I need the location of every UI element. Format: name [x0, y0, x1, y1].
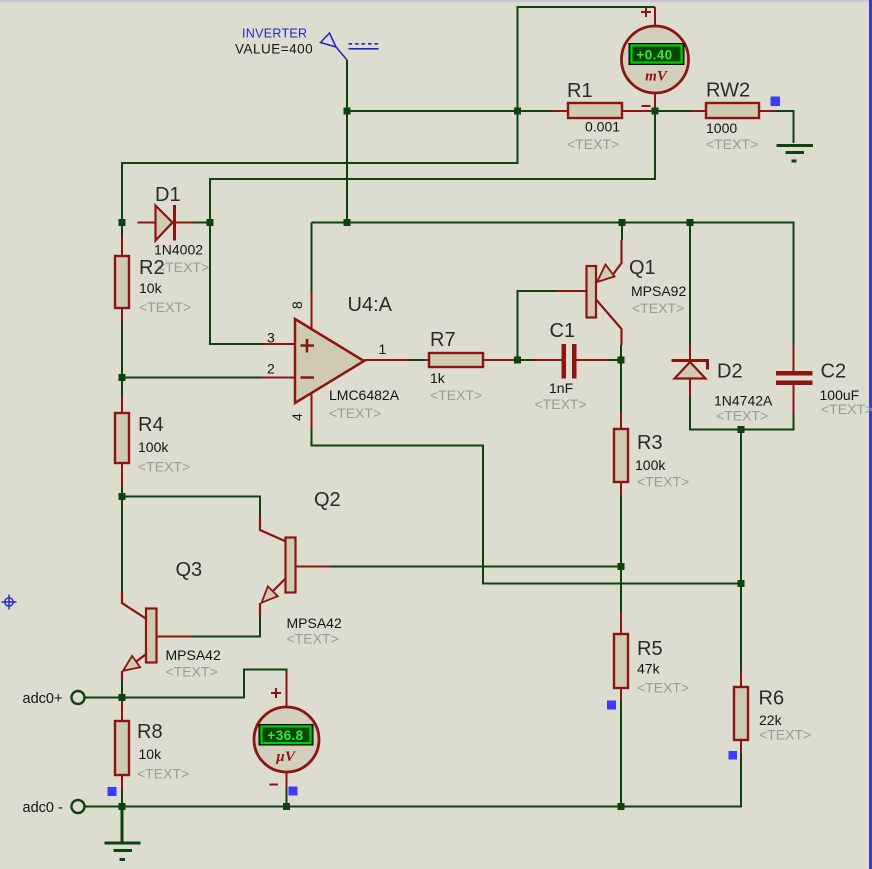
meter VM1 pin leads [654, 7, 656, 111]
marker square [289, 787, 298, 796]
svg-text:10k: 10k [139, 746, 163, 762]
wire C2 bottom node down [740, 430, 742, 584]
svg-text:1: 1 [379, 341, 387, 357]
svg-text:MPSA42: MPSA42 [166, 647, 221, 663]
svg-text:<TEXT>: <TEXT> [157, 259, 209, 275]
svg-text:<TEXT>: <TEXT> [139, 299, 191, 315]
junction node (655,111) [652, 108, 659, 115]
junction node (122,222.5) [119, 219, 126, 226]
junction node (286.5,806.5) [283, 803, 290, 810]
svg-text:R3: R3 [637, 432, 663, 454]
svg-text:4: 4 [289, 413, 305, 421]
D2 pin leads [689, 344, 691, 397]
svg-text:<TEXT>: <TEXT> [166, 664, 218, 680]
R1 pin leads [552, 110, 655, 112]
wire node to RW2 [655, 110, 692, 112]
junction node (122,806.5) [119, 803, 126, 810]
junction node (347,222.5) [344, 219, 351, 226]
transistor Q3 [146, 609, 157, 663]
resistor R8 body [115, 721, 129, 775]
svg-text:<TEXT>: <TEXT> [430, 387, 482, 403]
resistor R1 body [568, 103, 622, 118]
svg-text:100k: 100k [138, 439, 169, 455]
C1 pin leads [532, 359, 609, 361]
wire inverter vertical [346, 60, 348, 223]
capacitor C2 plates [776, 371, 813, 376]
svg-text:C1: C1 [550, 320, 576, 342]
svg-text:<TEXT>: <TEXT> [535, 396, 587, 412]
voltmeter VM1 (mV) [622, 26, 689, 93]
svg-text:1000: 1000 [706, 120, 737, 136]
marker square [108, 787, 117, 796]
svg-text:1N4742A: 1N4742A [714, 393, 773, 409]
Q3 base lead [157, 636, 193, 638]
wire top rail to meter + and left drop to D1 [122, 7, 655, 223]
wire Q2 emitter to Q3 base [192, 616, 260, 637]
svg-text:<TEXT>: <TEXT> [287, 631, 339, 647]
svg-text:Q1: Q1 [629, 257, 656, 279]
svg-text:<TEXT>: <TEXT> [637, 680, 689, 696]
svg-text:+36.8: +36.8 [267, 728, 303, 743]
svg-text:mV: mV [645, 69, 669, 85]
wire R2 top stub [121, 223, 123, 237]
R7 pin leads [424, 359, 518, 361]
junction node (347,111) [344, 108, 351, 115]
svg-text:INVERTER: INVERTER [242, 27, 307, 41]
wire C1 node to R3 [620, 360, 622, 412]
Q1 base lead [557, 290, 587, 292]
svg-text:U4:A: U4:A [348, 294, 393, 316]
svg-text:1k: 1k [430, 370, 446, 386]
svg-text:8: 8 [289, 301, 305, 309]
ground (top right) [777, 146, 814, 162]
op-amp pin4 lead [311, 394, 313, 430]
svg-text:Q2: Q2 [314, 489, 341, 511]
svg-text:100k: 100k [635, 457, 666, 473]
svg-text:<TEXT>: <TEXT> [329, 405, 381, 421]
svg-text:MPSA42: MPSA42 [287, 615, 342, 631]
junction node (741,583.5) [738, 580, 745, 587]
capacitor C1 plates [562, 344, 567, 379]
op-amp pin1 lead [364, 359, 410, 361]
svg-text:VALUE=400: VALUE=400 [235, 42, 313, 57]
svg-text:<TEXT>: <TEXT> [567, 136, 619, 152]
wire R3 to R5 node [620, 483, 622, 613]
svg-text:adc0 -: adc0 - [23, 800, 63, 816]
wire D2 top drop [689, 223, 691, 345]
wire Q3 emitter down [121, 680, 123, 698]
wire R8 bottom stub [121, 790, 123, 807]
zener diode D2 [675, 362, 706, 379]
svg-text:<TEXT>: <TEXT> [821, 401, 872, 417]
resistor R6 body [734, 687, 748, 740]
marker square [607, 701, 616, 710]
Q2 base lead [296, 566, 331, 568]
svg-text:2: 2 [267, 361, 275, 377]
svg-text:<TEXT>: <TEXT> [138, 459, 190, 475]
marker square [771, 97, 781, 107]
svg-text:<TEXT>: <TEXT> [759, 727, 811, 743]
junction node (210,222.5) [207, 219, 214, 226]
resistor R2 body [115, 256, 129, 308]
svg-text:R8: R8 [137, 721, 163, 743]
terminal adc0+ [72, 691, 85, 704]
op-amp U4:A body [295, 319, 364, 403]
svg-text:0.001: 0.001 [585, 119, 620, 135]
wire uV meter - stub [286, 790, 288, 807]
junction node (621,360) [618, 357, 625, 364]
wire +V rail y222 [312, 223, 794, 344]
resistor R4 body [115, 413, 129, 463]
wire node to R6 [740, 584, 742, 671]
junction node (622,222.5) [619, 219, 626, 226]
wire D2/C2 bottom link [690, 397, 794, 430]
voltmeter VM2 (uV) [254, 707, 319, 772]
svg-text:adc0+: adc0+ [23, 691, 63, 707]
R8 pin leads [121, 698, 123, 790]
transistor Q2 [286, 538, 296, 593]
junction node (122,496.5) [119, 493, 126, 500]
wire Q2 base to R3/R5 node [330, 566, 621, 568]
wire adc0+ rail and uV meter + route [85, 670, 287, 698]
svg-text:C2: C2 [821, 361, 847, 383]
op-amp pin8 lead [311, 292, 313, 329]
wire R1 row left [347, 110, 552, 112]
junction node (621,806.5) [618, 803, 625, 810]
wire Q2 collector route [122, 497, 260, 517]
wire C1 left stub [518, 359, 533, 361]
svg-text:<TEXT>: <TEXT> [716, 408, 768, 424]
diode D1 [156, 206, 173, 241]
wire bottom rail adc0- to R6 [85, 754, 742, 807]
marker square [729, 751, 738, 760]
svg-text:1nF: 1nF [549, 380, 573, 396]
junction node (517.5,360) [514, 357, 521, 364]
junction node (690,222.5) [687, 219, 694, 226]
svg-text:R4: R4 [138, 414, 164, 436]
svg-text:R6: R6 [759, 688, 785, 710]
junction node (621,566.5) [618, 563, 625, 570]
wire R7/C1 node riser to Q1 base [518, 291, 558, 360]
svg-text:3: 3 [267, 330, 275, 346]
R5 pin leads [620, 612, 622, 700]
junction node (122,377.5) [119, 374, 126, 381]
svg-text:MPSA92: MPSA92 [631, 283, 686, 299]
svg-text:<TEXT>: <TEXT> [632, 300, 684, 316]
junction node (741,429.5) [738, 426, 745, 433]
wire R5 bottom [620, 700, 622, 807]
wire Q1 emitter stub [621, 223, 623, 241]
svg-text:Q3: Q3 [176, 559, 203, 581]
D1 pin leads [138, 222, 194, 224]
svg-text:R7: R7 [430, 329, 456, 351]
C2 pin leads [793, 344, 795, 415]
meter VM2 pin leads [286, 673, 288, 790]
svg-text:<TEXT>: <TEXT> [706, 136, 758, 152]
svg-text:47k: 47k [637, 661, 661, 677]
RW2 pin leads [692, 110, 776, 112]
resistor RW2 body [706, 103, 759, 118]
svg-text:<TEXT>: <TEXT> [637, 474, 689, 490]
svg-text:10k: 10k [139, 280, 163, 296]
resistor R7 body [429, 353, 483, 367]
wire left column R2-R4-Q3 [121, 322, 123, 592]
op-amp pin3 lead [262, 343, 296, 345]
wire pin2 [122, 377, 262, 379]
wire pin4 route to R6 node [312, 430, 742, 584]
svg-text:R2: R2 [139, 257, 165, 279]
svg-text:µV: µV [275, 749, 297, 765]
R4 pin leads [121, 396, 123, 487]
svg-text:LMC6482A: LMC6482A [329, 387, 400, 403]
terminal adc0- [72, 800, 85, 813]
origin marker [2, 595, 17, 610]
ground (bottom) [105, 807, 141, 860]
wire RW2 to ground [776, 111, 794, 143]
svg-text:+0.40: +0.40 [636, 48, 672, 63]
junction node (122,697.5) [119, 694, 126, 701]
wire meter- node down, across y179, down to pin3 [210, 111, 655, 344]
wire C1 right stub [609, 359, 621, 361]
R2 pin leads [121, 237, 123, 322]
svg-text:D2: D2 [717, 361, 743, 383]
resistor R3 body [614, 429, 628, 482]
generator INVERTER symbol [321, 33, 380, 60]
junction node (517.5,111) [514, 108, 521, 115]
svg-text:1N4002: 1N4002 [154, 242, 203, 258]
svg-text:RW2: RW2 [706, 80, 750, 102]
wire pin1 to R7 [410, 359, 424, 361]
svg-text:<TEXT>: <TEXT> [137, 766, 189, 782]
transistor Q1 [587, 266, 597, 318]
wire Q1 collector stub [620, 345, 622, 360]
svg-text:R5: R5 [637, 638, 663, 660]
wire pin8 riser [311, 223, 313, 293]
op-amp pin2 lead [262, 377, 296, 379]
resistor R5 body [614, 634, 628, 688]
svg-text:R1: R1 [567, 80, 593, 102]
svg-text:D1: D1 [155, 184, 181, 206]
R6 pin leads [740, 671, 742, 754]
wire D1 cathode link [193, 222, 210, 224]
R3 pin leads [620, 412, 622, 496]
